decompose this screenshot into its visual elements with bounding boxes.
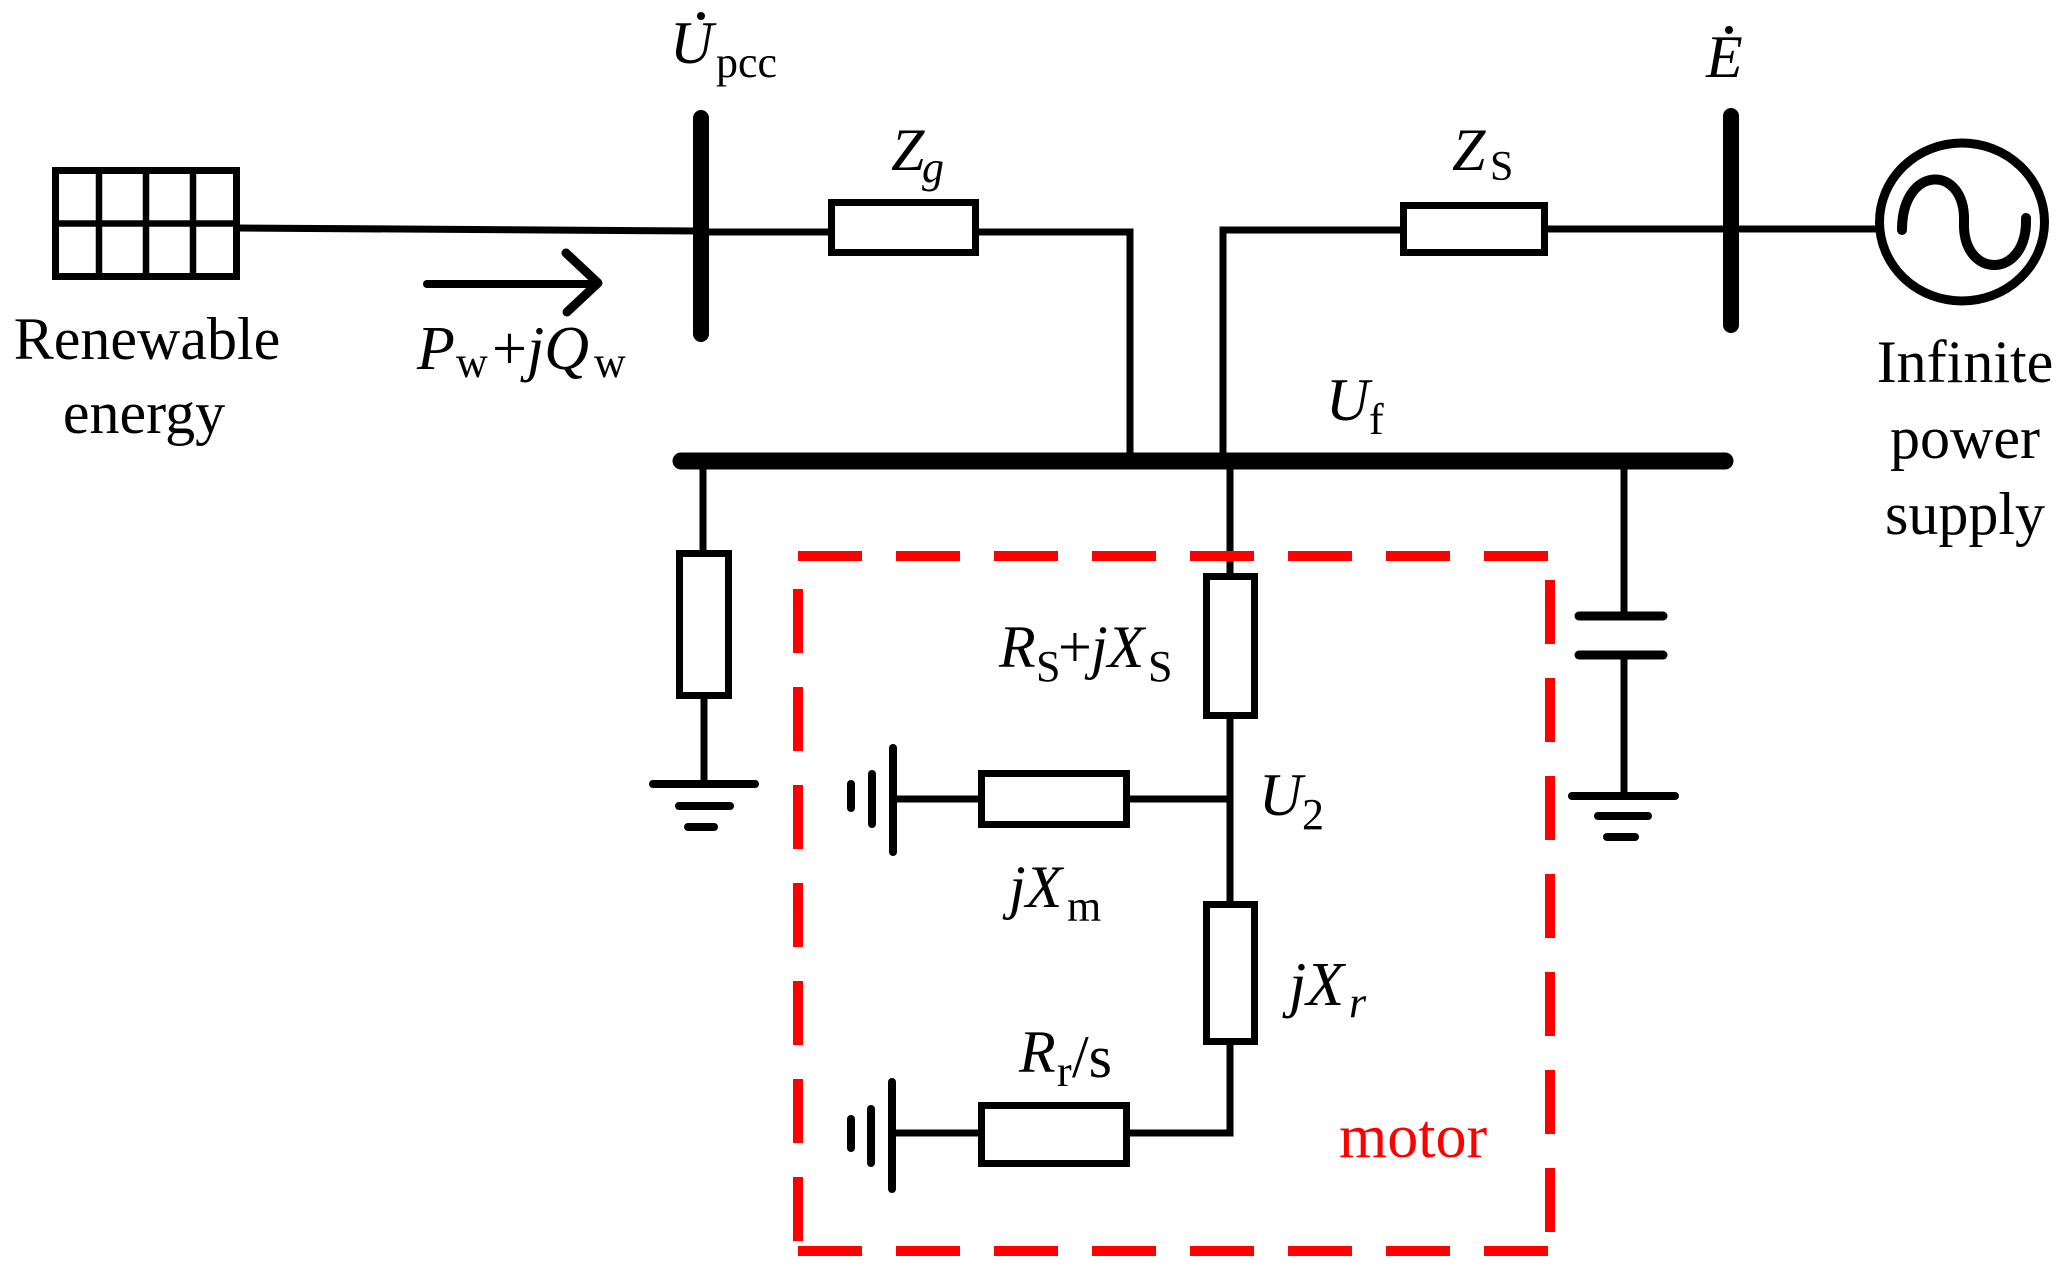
- resistor Rs+jXs: [1207, 577, 1255, 716]
- svg-text:jX: jX: [1282, 951, 1346, 1019]
- svg-text:R: R: [998, 614, 1036, 680]
- svg-text:Infinite: Infinite: [1877, 329, 2054, 395]
- arrow power flow: [427, 253, 598, 312]
- wire bus Uf down to motor branch: [1227, 461, 1234, 576]
- svg-text:+: +: [492, 315, 527, 383]
- svg-text:U: U: [670, 10, 717, 76]
- svg-text:/s: /s: [1072, 1024, 1112, 1090]
- bus bar E: [1723, 116, 1739, 325]
- svg-text:motor: motor: [1339, 1103, 1487, 1171]
- wire ground to resistor jXm: [893, 796, 978, 803]
- wire bus Uf down to left shunt resistor: [700, 461, 707, 553]
- capacitor shunt: [1579, 616, 1663, 655]
- svg-text:E: E: [1705, 24, 1743, 90]
- svg-text:energy: energy: [63, 380, 225, 446]
- svg-text:power: power: [1890, 405, 2040, 471]
- ground right: [1572, 796, 1675, 837]
- motor boundary red dashed box: [798, 556, 1550, 1251]
- svg-text:2: 2: [1302, 790, 1324, 839]
- wire bus Uf up and right to Zs: [1223, 230, 1400, 461]
- resistor Zs: [1404, 206, 1545, 253]
- resistor Rr/s: [982, 1106, 1127, 1164]
- svg-text:Renewable: Renewable: [14, 306, 281, 372]
- wire jXm to node U2: [1130, 796, 1230, 803]
- ground rotated (jXm branch): [851, 748, 893, 852]
- svg-text:S: S: [1148, 642, 1172, 691]
- wire Zs to infinite source: [1548, 226, 1879, 233]
- svg-text:S: S: [1036, 642, 1060, 691]
- svg-text:jX: jX: [1084, 614, 1147, 680]
- resistor jXm: [982, 774, 1127, 825]
- svg-text:g: g: [922, 143, 944, 192]
- resistor Zg: [832, 203, 976, 253]
- svg-text:w: w: [594, 338, 626, 387]
- wire jXr down to Rr/s branch: [1130, 1041, 1230, 1133]
- svg-text:supply: supply: [1885, 481, 2045, 547]
- svg-text:+: +: [1058, 614, 1092, 680]
- svg-text:S: S: [1490, 144, 1513, 190]
- svg-text:w: w: [456, 338, 488, 387]
- wire bus Upcc to Zg: [701, 229, 828, 236]
- renewable energy source array: [52, 167, 240, 280]
- svg-text:Z: Z: [891, 117, 925, 183]
- ground left: [653, 784, 755, 827]
- svg-text:U: U: [1259, 762, 1306, 828]
- wire capacitor to ground: [1621, 659, 1628, 792]
- svg-text:R: R: [1018, 1019, 1056, 1085]
- resistor jXr: [1207, 905, 1255, 1042]
- svg-text:r: r: [1349, 978, 1367, 1027]
- resistor left shunt: [680, 554, 729, 696]
- bus bar Upcc: [693, 118, 709, 334]
- wire Rs+jXs to node U2 and on to jXr: [1227, 715, 1234, 904]
- svg-text:r: r: [1057, 1047, 1072, 1096]
- wire resistor Rr/s to ground: [892, 1130, 978, 1137]
- svg-text:jQ: jQ: [520, 315, 589, 383]
- svg-text:Z: Z: [1452, 117, 1486, 183]
- wire left shunt resistor to ground: [701, 696, 708, 784]
- wire Zg to corner then down to bus Uf: [979, 232, 1130, 461]
- sine wave: [1902, 179, 2026, 265]
- wire grid to bus Upcc: [237, 228, 701, 231]
- wire bus Uf down to capacitor: [1621, 461, 1628, 612]
- svg-text:pcc: pcc: [716, 38, 777, 87]
- svg-text:U: U: [1326, 367, 1373, 433]
- svg-text:m: m: [1067, 882, 1101, 931]
- svg-text:P: P: [416, 315, 455, 383]
- svg-text:jX: jX: [1002, 854, 1065, 920]
- svg-text:f: f: [1369, 395, 1384, 444]
- AC source: infinite power supply: [1880, 143, 2045, 301]
- bus Uf: [681, 453, 1725, 470]
- ground rotated (Rr/s branch): [851, 1082, 892, 1189]
